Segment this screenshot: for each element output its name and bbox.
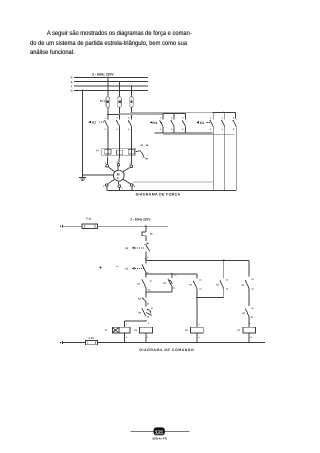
- wire a to K2 column: [146, 273, 197, 277]
- motor M1: [103, 161, 136, 189]
- fuse F21: [82, 224, 98, 229]
- svg-text:F 21: F 21: [86, 218, 92, 221]
- svg-text:2: 2: [105, 128, 107, 131]
- svg-text:N: N: [71, 90, 73, 93]
- fuse F1 pole 3: [130, 97, 134, 107]
- wire command bottom line: [60, 341, 265, 344]
- svg-text:F9: F9: [185, 329, 188, 332]
- fuse F1 pole 1: [106, 97, 110, 107]
- svg-text:KT: KT: [138, 312, 142, 315]
- wire K3 column: [248, 317, 250, 328]
- svg-text:3: 3: [222, 116, 224, 119]
- svg-text:1: 1: [147, 242, 148, 245]
- node tap S: [119, 113, 120, 114]
- timer coil KT1: [112, 327, 130, 333]
- svg-text:2: 2: [198, 336, 199, 339]
- contactor K3 main contacts: [210, 116, 236, 131]
- wire relay to motor 3: [130, 148, 132, 165]
- overload relay FT1: [102, 148, 136, 155]
- label K1: [88, 121, 104, 125]
- contact K1 seal branch: [216, 260, 229, 290]
- svg-text:13: 13: [174, 274, 176, 277]
- wire K2 star point (faded): [163, 134, 235, 136]
- node tap T: [131, 112, 132, 113]
- footer rule: [130, 431, 189, 433]
- svg-text:K1: K1: [216, 284, 220, 287]
- wire K3 pole2 drop: [224, 127, 226, 191]
- wire to KT coil: [124, 321, 145, 327]
- svg-text:1: 1: [160, 116, 162, 119]
- svg-text:14: 14: [226, 288, 229, 291]
- svg-text:3: 3: [116, 116, 118, 119]
- svg-text:4: 4: [126, 323, 127, 326]
- svg-text:43: 43: [199, 279, 201, 282]
- svg-text:S1: S1: [125, 268, 129, 271]
- coil K1: [140, 327, 153, 333]
- svg-text:2: 2: [210, 128, 212, 131]
- svg-text:K2: K2: [153, 121, 157, 125]
- contact K2 NC delta branch: [242, 289, 253, 319]
- node K1 coil top: [145, 272, 150, 324]
- svg-text:1: 1: [210, 116, 212, 119]
- wire K1 pole2 to relay: [119, 127, 121, 149]
- svg-text:4: 4: [171, 128, 173, 131]
- svg-text:T: T: [71, 85, 73, 88]
- wire bus R: [74, 76, 148, 78]
- svg-text:KT: KT: [189, 284, 193, 287]
- svg-text:F 22: F 22: [89, 337, 95, 340]
- svg-text:43: 43: [251, 278, 253, 281]
- svg-text:K3: K3: [137, 282, 141, 285]
- wire bus N: [74, 89, 148, 91]
- wire KT bypass rejoin: [146, 286, 172, 292]
- ground: [79, 174, 86, 180]
- contact K1 aux delta branch: [242, 260, 255, 290]
- contact KT timed opening on main: [138, 302, 153, 319]
- contactor K1 main contacts: [105, 116, 132, 131]
- fuse F1 pole 2: [118, 97, 122, 107]
- wire K2 coil to bottom: [197, 333, 200, 343]
- node tap R: [107, 114, 108, 115]
- svg-text:F8: F8: [134, 329, 137, 332]
- svg-text:F7: F7: [105, 329, 108, 332]
- svg-text:13: 13: [226, 279, 228, 282]
- wire bus S: [74, 81, 148, 83]
- svg-text:3~: 3~: [117, 177, 120, 180]
- wire command top line: [60, 225, 168, 228]
- svg-text:4: 4: [122, 187, 124, 190]
- wire K3 top bracket: [212, 112, 235, 119]
- wire K1 coil to bottom: [146, 333, 149, 343]
- wire K2 top bracket: [163, 113, 186, 119]
- svg-text:22: 22: [147, 302, 149, 305]
- wire phase R drop: [107, 77, 108, 97]
- wire bus T: [74, 85, 148, 87]
- contact KT NO star branch: [189, 274, 202, 291]
- svg-text:SENAI-PR: SENAI-PR: [152, 438, 167, 441]
- contact K2 NC on main: [138, 287, 149, 305]
- svg-text:62: 62: [148, 289, 150, 292]
- svg-text:2: 2: [160, 128, 162, 131]
- node a speck: [100, 266, 120, 268]
- svg-text:4: 4: [199, 323, 200, 326]
- coil K3: [243, 327, 256, 333]
- pushbutton S0: [125, 245, 149, 255]
- overload aux contact 95-96: [136, 144, 149, 161]
- svg-text:a: a: [148, 322, 150, 324]
- coil K2: [191, 327, 204, 333]
- svg-text:6: 6: [103, 185, 105, 188]
- svg-text:14: 14: [173, 286, 176, 289]
- svg-text:121: 121: [155, 430, 163, 436]
- svg-text:44: 44: [251, 288, 254, 291]
- svg-text:2: 2: [126, 336, 127, 339]
- wire fuse1 to K1 contacts: [107, 107, 109, 119]
- svg-text:DIAGRAMA DE FORÇA: DIAGRAMA DE FORÇA: [136, 192, 181, 196]
- svg-text:5: 5: [182, 116, 184, 119]
- wire relay to motor 2: [119, 148, 120, 163]
- svg-text:K1: K1: [92, 121, 96, 125]
- svg-text:5: 5: [233, 116, 235, 119]
- wire fuse3 to K1 contacts: [130, 107, 132, 119]
- wire K1 pole3 to relay: [130, 127, 132, 149]
- svg-text:62: 62: [251, 316, 253, 319]
- svg-text:6: 6: [182, 128, 184, 131]
- wire phase T drop: [131, 85, 132, 97]
- svg-text:M: M: [117, 173, 120, 177]
- wire tap S to K2 bracket (faded): [120, 113, 163, 115]
- svg-text:3 - 60Hz 220V: 3 - 60Hz 220V: [92, 73, 114, 77]
- svg-text:S: S: [71, 81, 73, 84]
- svg-text:15: 15: [151, 307, 153, 310]
- pushbutton S1: [125, 255, 146, 274]
- contactor K2 main contacts: [160, 116, 186, 131]
- svg-text:2: 2: [147, 336, 148, 339]
- fuse F22: [86, 340, 98, 344]
- svg-text:95: 95: [141, 144, 144, 147]
- svg-text:96: 96: [146, 144, 149, 147]
- svg-text:16: 16: [147, 315, 149, 318]
- node a: [145, 273, 147, 275]
- wire motor bottom bus: [107, 189, 236, 191]
- wire tap R feeder faded: [120, 114, 163, 116]
- contact K3 NC on main: [137, 274, 151, 292]
- wire motor terminal 5 to K3 (faded): [133, 181, 213, 183]
- overload contact FT1 95-96: [142, 226, 153, 245]
- svg-text:95: 95: [150, 232, 153, 235]
- wire relay to motor 1: [106, 148, 108, 164]
- label F1: [100, 100, 106, 103]
- svg-text:K2: K2: [138, 297, 142, 300]
- svg-text:2 - 60Hz 220V: 2 - 60Hz 220V: [130, 217, 151, 221]
- svg-text:3: 3: [171, 116, 173, 119]
- wire N drop to ground/motor: [82, 90, 113, 175]
- wire K3 pole3 drop: [235, 127, 237, 191]
- wire motor terminal 6 to bottom bus: [107, 186, 132, 190]
- svg-text:61: 61: [251, 307, 253, 310]
- svg-text:2: 2: [147, 256, 148, 259]
- svg-text:6: 6: [128, 128, 130, 131]
- svg-text:S0: S0: [125, 247, 129, 250]
- svg-text:5: 5: [128, 116, 130, 119]
- svg-text:98: 98: [145, 158, 148, 161]
- svg-text:F7: F7: [96, 150, 99, 153]
- svg-text:F1: F1: [102, 100, 105, 103]
- svg-text:K3: K3: [200, 121, 204, 125]
- svg-text:1: 1: [105, 116, 107, 119]
- svg-text:4: 4: [116, 128, 118, 131]
- wire K2 column: [197, 298, 200, 328]
- svg-text:44: 44: [199, 288, 202, 291]
- svg-text:DIAGRAMA DE COMANDO: DIAGRAMA DE COMANDO: [139, 348, 194, 352]
- wire K3 coil to bottom: [249, 333, 252, 343]
- wire K3 pole1 drop: [212, 127, 214, 191]
- label K2: [150, 121, 162, 125]
- svg-text:61: 61: [150, 280, 152, 283]
- wire star merge: [196, 289, 224, 299]
- footer page badge 121: [154, 427, 165, 436]
- svg-text:K2: K2: [242, 312, 246, 315]
- svg-text:9: 9: [251, 336, 252, 339]
- wire K2 star point: [154, 127, 212, 133]
- svg-text:5: 5: [134, 185, 136, 188]
- wire branch to aux columns: [146, 260, 249, 262]
- svg-text:R: R: [71, 77, 73, 80]
- node 2: [145, 242, 148, 260]
- wire K1 pole1 to relay: [107, 127, 109, 149]
- wire tap R feeder: [108, 114, 120, 116]
- svg-text:6: 6: [233, 128, 235, 131]
- node L1: [145, 225, 147, 227]
- svg-text:KT: KT: [163, 282, 167, 285]
- svg-text:F3: F3: [237, 329, 240, 332]
- wire KT coil to bottom: [124, 333, 127, 343]
- label K3: [196, 121, 210, 125]
- wire tap T to K3 bracket (faded): [131, 111, 212, 113]
- svg-text:4: 4: [222, 128, 224, 131]
- wire fuse2 to K1 contacts: [119, 107, 121, 119]
- wire phase S drop: [119, 81, 120, 97]
- contact KT timed bypass: [163, 274, 176, 290]
- svg-text:K1: K1: [242, 284, 246, 287]
